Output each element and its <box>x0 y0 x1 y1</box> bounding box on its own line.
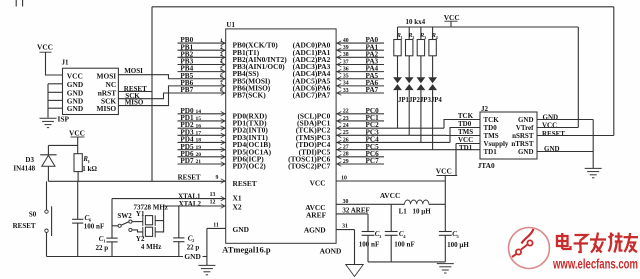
svg-text:4: 4 <box>220 59 223 65</box>
svg-text:PB7: PB7 <box>180 86 193 94</box>
svg-text:24: 24 <box>343 123 349 129</box>
wire PC4, pin 26 <box>336 141 450 143</box>
watermark chinese text <box>557 233 638 253</box>
svg-text:XTAL2: XTAL2 <box>179 200 202 208</box>
svg-text:29: 29 <box>343 159 349 165</box>
wire PB6 stub, pin 7 <box>221 84 225 89</box>
svg-text:VCC: VCC <box>310 179 326 188</box>
svg-text:3: 3 <box>379 234 382 239</box>
svg-text:(ADC7)PA7: (ADC7)PA7 <box>293 91 331 100</box>
svg-text:26: 26 <box>343 137 349 143</box>
wire GND pin 11 to ground <box>207 227 226 229</box>
wire PD4 stub, pin 18 <box>178 141 226 143</box>
wire PA1 stub, pin 39 <box>336 49 384 51</box>
svg-text:34: 34 <box>343 81 349 87</box>
svg-text:VCC: VCC <box>542 122 557 130</box>
svg-text:SW2: SW2 <box>117 212 132 220</box>
svg-text:TD1: TD1 <box>484 148 498 156</box>
wire PB1 stub, pin 2 <box>178 49 226 51</box>
wire analog ground rail <box>368 261 445 263</box>
svg-text:PD7: PD7 <box>180 157 194 165</box>
svg-text:J1: J1 <box>62 59 70 67</box>
svg-text:S0: S0 <box>29 211 37 219</box>
resistor R2 <box>408 27 410 40</box>
svg-text:GND: GND <box>233 225 249 234</box>
svg-text:7: 7 <box>220 81 223 87</box>
svg-text:23: 23 <box>343 116 349 122</box>
svg-text:PA7: PA7 <box>366 86 379 94</box>
svg-text:GND: GND <box>518 116 534 124</box>
svg-text:nTRST: nTRST <box>511 140 534 148</box>
svg-text:27: 27 <box>343 144 349 150</box>
ground triangle (AGND) <box>346 265 364 277</box>
wire PA2 stub, pin 38 <box>336 56 384 58</box>
svg-text:37: 37 <box>343 59 349 65</box>
wire PA6 stub, pin 34 <box>336 85 384 87</box>
svg-text:RESET: RESET <box>542 130 565 138</box>
ground (JTAG) <box>585 167 602 169</box>
wire PC3, pin 25 <box>336 134 446 136</box>
svg-text:15: 15 <box>196 116 202 122</box>
wire PD3 stub, pin 17 <box>178 134 226 136</box>
svg-text:18: 18 <box>196 138 202 144</box>
svg-text:VTref: VTref <box>516 124 534 132</box>
svg-text:1: 1 <box>88 159 91 164</box>
wire RESET rail top <box>151 7 153 181</box>
wire PC7, pin 29 <box>336 163 384 165</box>
svg-text:6: 6 <box>220 73 223 79</box>
svg-text:AVCC: AVCC <box>380 191 400 200</box>
wire PD0 stub, pin 14 <box>178 113 226 115</box>
jumper JP4 <box>428 77 437 83</box>
wire PD1 stub, pin 15 <box>178 120 226 122</box>
svg-text:MOSI: MOSI <box>124 67 143 75</box>
svg-text:35: 35 <box>343 74 349 80</box>
svg-text:Vsupply: Vsupply <box>484 140 509 148</box>
wire PD7 stub, pin 21 <box>178 163 226 165</box>
resistor R3 <box>420 27 422 40</box>
svg-text:14: 14 <box>196 109 202 115</box>
svg-text:1 kΩ: 1 kΩ <box>82 165 97 173</box>
resistor R1 <box>397 27 399 40</box>
watermark logo circle <box>509 228 550 269</box>
svg-text:10 µH: 10 µH <box>413 207 432 215</box>
ground (ISP) <box>40 117 57 119</box>
svg-text:10: 10 <box>341 176 347 182</box>
wire VCC to J1 <box>46 52 63 75</box>
svg-text:TD0: TD0 <box>484 124 498 132</box>
svg-text:PD7(OC2): PD7(OC2) <box>233 162 267 171</box>
svg-text:JTA0: JTA0 <box>478 161 495 170</box>
resistor R 1 kOhm <box>74 154 82 172</box>
svg-text:12: 12 <box>210 200 216 206</box>
jumper JP3 <box>417 77 426 83</box>
svg-text:11: 11 <box>213 222 219 228</box>
jumper JP1 <box>393 77 402 83</box>
svg-text:TD1: TD1 <box>459 144 473 152</box>
svg-text:36: 36 <box>343 66 349 72</box>
wire PD2 stub, pin 16 <box>178 127 226 129</box>
svg-text:20: 20 <box>196 152 202 158</box>
svg-text:GND: GND <box>67 104 83 113</box>
svg-text:AREF: AREF <box>306 211 327 220</box>
svg-text:VCC: VCC <box>69 128 85 137</box>
svg-text:3: 3 <box>220 52 223 58</box>
svg-text:ATmegal16.p: ATmegal16.p <box>222 245 271 254</box>
wire PD6 stub, pin 20 <box>178 156 226 158</box>
svg-text:GND: GND <box>518 148 534 156</box>
svg-text:10 kx4: 10 kx4 <box>406 18 426 26</box>
wire PB5 stub, pin 6 <box>221 76 225 81</box>
svg-text:VCC: VCC <box>444 13 460 22</box>
svg-text:RESET: RESET <box>233 179 257 188</box>
wire VCC to R and D3 <box>77 137 79 154</box>
jumper JP2 <box>405 77 414 83</box>
wire PB7 stub, pin 8 <box>221 91 225 96</box>
wire PA4 stub, pin 36 <box>336 71 384 73</box>
svg-text:5: 5 <box>220 66 223 72</box>
wire PB0 stub, pin 1 <box>178 42 226 44</box>
resistor R4 <box>432 27 434 40</box>
wire PB2 stub, pin 3 <box>178 56 226 58</box>
svg-text:RESET: RESET <box>178 173 201 181</box>
pin 13 X1 stub <box>221 196 225 201</box>
svg-text:2: 2 <box>220 45 223 51</box>
capacitor C5 100 uH <box>439 231 452 233</box>
svg-text:33: 33 <box>343 88 349 94</box>
svg-text:31: 31 <box>342 224 348 230</box>
pin 12 X2 stub <box>221 204 225 209</box>
svg-text:TMS: TMS <box>484 132 499 140</box>
svg-text:38: 38 <box>343 52 349 58</box>
svg-text:RESET: RESET <box>13 222 36 230</box>
svg-text:L1: L1 <box>399 207 408 215</box>
svg-text:100 nF: 100 nF <box>394 240 414 248</box>
svg-text:22 p: 22 p <box>187 243 200 251</box>
wire PA0 stub, pin 40 <box>336 42 384 44</box>
svg-text:1: 1 <box>103 238 106 243</box>
svg-text:JP1JP2JP3JP4: JP1JP2JP3JP4 <box>398 97 442 104</box>
wire PA5 stub, pin 35 <box>336 78 384 80</box>
ground (bottom) <box>198 264 215 266</box>
wire PC2, pin 24 <box>336 127 444 129</box>
wire PB3 stub, pin 4 <box>178 63 226 65</box>
svg-text:nSRST: nSRST <box>512 132 534 140</box>
svg-text:100 µH: 100 µH <box>447 241 469 249</box>
wire VCC rail <box>398 26 579 28</box>
svg-text:U1: U1 <box>226 21 235 29</box>
svg-text:5: 5 <box>457 234 460 239</box>
svg-text:IN4148: IN4148 <box>13 164 35 172</box>
svg-text:VCC: VCC <box>37 43 53 52</box>
wire RESET node row <box>48 180 225 182</box>
wire bottom ground rail <box>47 256 184 258</box>
svg-text:100 nF: 100 nF <box>84 223 104 231</box>
pin 9 RESET stub <box>221 179 225 184</box>
svg-text:GND: GND <box>543 114 559 122</box>
svg-text:(TOSC2)PC7: (TOSC2)PC7 <box>288 162 330 171</box>
svg-text:17: 17 <box>196 131 202 137</box>
wire PC1, pin 23 <box>336 120 384 122</box>
svg-text:100 nF: 100 nF <box>359 240 379 248</box>
svg-text:16: 16 <box>196 123 202 129</box>
svg-text:TCK: TCK <box>484 116 500 124</box>
svg-text:PB7(SCK): PB7(SCK) <box>233 91 267 100</box>
inductor L1 10 uH <box>405 200 429 204</box>
capacitor C2 22 p <box>178 206 180 238</box>
svg-text:GND: GND <box>184 252 200 261</box>
svg-text:4 MHz: 4 MHz <box>141 243 161 251</box>
svg-text:PC7: PC7 <box>366 157 380 165</box>
wire PD5 stub, pin 19 <box>178 149 226 151</box>
wire PA3 stub, pin 37 <box>336 63 384 65</box>
capacitor C6 100 nF <box>77 181 79 219</box>
svg-text:1: 1 <box>220 38 223 44</box>
svg-text:22 p: 22 p <box>96 244 109 252</box>
svg-text:4: 4 <box>403 234 406 239</box>
wire PC0, pin 22 <box>336 113 384 115</box>
svg-text:39: 39 <box>343 45 349 51</box>
wire PC6, pin 28 <box>336 156 384 158</box>
svg-text:www.elecfans.com: www.elecfans.com <box>552 257 638 272</box>
svg-text:AGND: AGND <box>304 225 326 234</box>
wire VCC stem to C5 <box>444 176 446 232</box>
svg-text:28: 28 <box>343 152 349 158</box>
svg-text:8: 8 <box>220 88 223 94</box>
wire PA7 stub, pin 33 <box>336 92 384 94</box>
capacitor C4 100 nF <box>390 204 392 231</box>
svg-text:9: 9 <box>216 175 219 181</box>
svg-text:21: 21 <box>196 159 202 165</box>
wire PB4 stub, pin 5 <box>178 71 226 73</box>
svg-text:22: 22 <box>343 109 349 115</box>
wire VCC pin 10 <box>336 180 445 182</box>
svg-text:19: 19 <box>196 145 202 151</box>
wire fragment top-left <box>15 0 17 7</box>
svg-text:AOND: AOND <box>320 247 342 256</box>
svg-text:13: 13 <box>210 192 216 198</box>
svg-text:25: 25 <box>343 130 349 136</box>
svg-text:D3: D3 <box>25 156 34 164</box>
svg-text:X2: X2 <box>233 202 242 211</box>
svg-text:MISO: MISO <box>96 104 116 113</box>
ground (analog) <box>437 263 454 265</box>
svg-text:40: 40 <box>343 38 349 44</box>
wire PC5, pin 27 <box>336 149 480 151</box>
wires J1 GND pins to ground <box>48 83 63 85</box>
svg-text:ISP: ISP <box>58 114 70 123</box>
capacitor C3 100 nF <box>362 231 375 233</box>
svg-text:Y1: Y1 <box>136 210 145 218</box>
svg-text:VCC: VCC <box>436 167 452 176</box>
